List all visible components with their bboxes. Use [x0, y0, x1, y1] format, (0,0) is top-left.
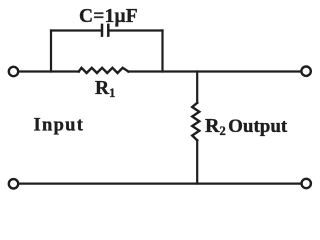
wire bottom horizontal: [18, 183, 301, 185]
svg-text:Input: Input: [34, 115, 85, 135]
wire capacitor branch left vertical: [50, 31, 52, 72]
input terminal top-left: [9, 67, 18, 76]
wire main horizontal right segment: [128, 70, 301, 72]
wire capacitor branch top-right horizontal: [110, 29, 163, 31]
capacitor C1 plates: [102, 25, 108, 36]
wire R2 branch lower vertical: [196, 140, 198, 183]
resistor R2: [192, 103, 199, 141]
wire capacitor branch top-left horizontal: [51, 29, 101, 31]
wire main horizontal left segment: [18, 70, 78, 72]
svg-text:C=1μF: C=1μF: [79, 6, 138, 27]
ground terminal bottom-right: [302, 179, 311, 188]
output terminal top-right: [301, 67, 310, 76]
svg-text:R2Output: R2Output: [205, 115, 288, 138]
wire capacitor branch right vertical: [161, 31, 163, 72]
resistor R1: [79, 68, 129, 73]
wire R2 branch upper vertical: [196, 72, 198, 103]
ground terminal bottom-left: [9, 179, 18, 188]
